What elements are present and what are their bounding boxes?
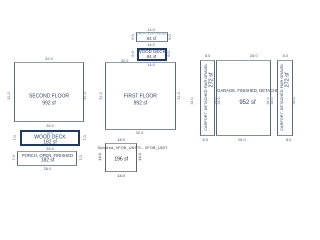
second floor area: [42, 102, 56, 107]
middle deck left dim 6.0: [131, 51, 135, 57]
middle porch outline: [136, 32, 168, 43]
garage label: [217, 89, 282, 93]
second floor right dim 31.0: [84, 92, 88, 99]
dim 26.0 below second floor: [46, 124, 54, 128]
garage bottom dim 28.0: [238, 138, 246, 142]
right carport outline: [277, 60, 293, 136]
left carport area: [209, 72, 215, 87]
first floor area: [134, 101, 148, 106]
garage top dim 28.0: [250, 54, 258, 58]
utility left dim 14.0: [98, 153, 102, 161]
second floor label: [29, 95, 69, 100]
porch right side dim 7.0: [79, 156, 83, 162]
utility box outline: [105, 143, 137, 172]
porch left area: [41, 158, 55, 163]
first floor top dim 32.0: [121, 59, 129, 63]
second floor left dim 31.0: [8, 92, 12, 99]
first floor left dim 31.0: [100, 93, 104, 100]
wood deck left label: [34, 135, 65, 140]
dim 14.0 between porch and deck: [147, 43, 155, 47]
right carport area: [285, 72, 291, 87]
first floor outline: [105, 62, 176, 129]
garage left inner dim 34.0: [215, 97, 219, 104]
first floor bottom dim 32.0: [136, 131, 144, 135]
left carport outline: [200, 60, 216, 136]
garage right inner dim 34.0: [267, 97, 271, 104]
garage outline: [216, 60, 271, 136]
left carport bottom dim 8.0: [203, 138, 209, 142]
first floor inner top dim 14.0: [147, 63, 155, 67]
wood deck left area: [43, 140, 57, 145]
second floor top dim 32.0: [45, 57, 53, 61]
left carport label: [205, 63, 209, 130]
middle porch label: [136, 34, 168, 37]
middle porch left dim 6.0: [131, 34, 135, 40]
wood deck right side dim 7.0: [83, 135, 87, 141]
left carport outside dim 34.0: [192, 97, 196, 104]
first floor label: [124, 94, 157, 99]
middle deck right dim 6.0: [167, 51, 171, 57]
right carport top dim 8.0: [283, 54, 289, 58]
porch left label: [22, 153, 73, 157]
garage left inner dim 34.0 b: [219, 97, 223, 104]
carport top dim 8.0: [205, 54, 211, 58]
garage area: [239, 100, 255, 106]
utility bottom dim 14.0: [117, 174, 125, 178]
right carport label: [281, 63, 285, 130]
right carport bottom dim 8.0: [286, 138, 292, 142]
middle porch area: [147, 37, 156, 41]
middle wood deck label: [137, 50, 165, 55]
utility right dim 14.0: [138, 153, 142, 161]
porch left side dim 7.0: [12, 156, 16, 162]
utility dim 14.0 above: [117, 138, 125, 142]
utility area: [114, 158, 128, 163]
wood deck left dim 32.0: [47, 132, 53, 135]
middle porch right dim 6.0: [168, 34, 172, 40]
middle wood deck outline: [137, 48, 167, 61]
wood deck left outline: [20, 130, 80, 146]
dim 26.0 below wood deck: [46, 147, 54, 151]
middle porch top dim 14.0: [147, 28, 155, 32]
right carport outside dim 34.0: [293, 97, 297, 104]
first floor right dim 31.0: [178, 93, 182, 100]
middle wood deck area: [147, 55, 157, 60]
dim 34.0 in gap: [271, 97, 275, 104]
dim 26.0 below porch: [44, 167, 52, 171]
porch left outline: [17, 151, 77, 166]
utility placeholder text: [98, 147, 168, 151]
wood deck left side dim 7.0: [13, 135, 17, 141]
second floor outline: [14, 62, 84, 122]
